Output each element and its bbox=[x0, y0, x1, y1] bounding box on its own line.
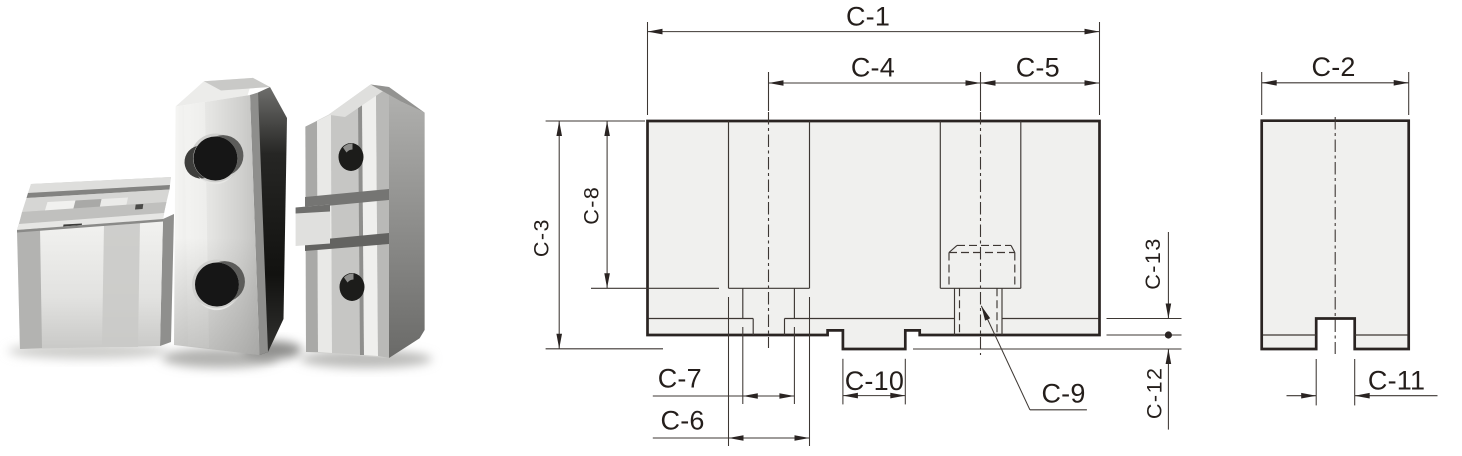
leader C-9 slanted line bbox=[981, 306, 1030, 410]
arrow C-7 left bbox=[743, 393, 758, 399]
photo: floor shadow under block C bbox=[300, 350, 432, 368]
dim C-10 line bbox=[843, 395, 905, 397]
front view: bolt hole left wall bbox=[954, 288, 956, 335]
svg-text:C-11: C-11 bbox=[1368, 365, 1425, 395]
photo: block B upper counterbore hole bbox=[185, 134, 244, 185]
arrow C-12 up bbox=[1166, 349, 1172, 364]
photo: block A shadow line under top edge bbox=[17, 219, 163, 233]
dim C-2 extension right bbox=[1408, 72, 1410, 115]
centerline: bolt axis dash-dot bbox=[980, 112, 982, 355]
svg-text:C-5: C-5 bbox=[1016, 52, 1060, 82]
arrow C-2 left bbox=[1262, 80, 1277, 86]
dim C-2 line bbox=[1262, 82, 1409, 84]
arrow C-3 bottom bbox=[556, 334, 562, 349]
photo: block A top face base bbox=[17, 177, 171, 230]
dim C-11 extension right bbox=[1354, 359, 1356, 405]
dim C-2 extension left bbox=[1261, 72, 1263, 115]
photo: block A front slope of top face bbox=[19, 202, 167, 224]
photo: block C upper hole bbox=[339, 143, 364, 171]
dim C-8 line bbox=[606, 121, 608, 288]
photo: block B front face sheen bbox=[184, 102, 209, 348]
photo: block A dark slot on face bbox=[62, 224, 82, 235]
arrow C-4 left bbox=[769, 80, 784, 86]
arrow C-13 down bbox=[1166, 304, 1172, 319]
front view: part outline with bottom tongue bbox=[648, 121, 1100, 349]
photo: block C top chamfer right facet bbox=[371, 85, 425, 113]
photo: block A ridge tab left bright bbox=[44, 201, 76, 214]
dim C-1 line bbox=[648, 31, 1100, 33]
photo: block A front face left chamfer strip bbox=[17, 228, 42, 349]
front view: counterbore right wall bbox=[1020, 121, 1022, 288]
photo: block B dark right side face bbox=[258, 87, 287, 355]
leader C-9 horizontal line bbox=[1030, 409, 1087, 411]
photo: block B top chamfer facet bbox=[176, 78, 253, 107]
arrow C-10 right bbox=[890, 393, 905, 399]
photo: block C lower hole bbox=[340, 273, 365, 301]
front view: through slot left wall bbox=[752, 319, 754, 336]
arrow C-9 leader bbox=[981, 306, 990, 321]
arrow C-1 left bbox=[648, 29, 663, 35]
svg-text:C-10: C-10 bbox=[845, 366, 904, 396]
front view: counterbore bottom ledge bbox=[940, 287, 1021, 289]
photo: block C channel right edge shade bbox=[358, 98, 364, 355]
dim C-6 extension right bbox=[809, 297, 811, 446]
photo: block C left rail side strip bbox=[305, 121, 318, 352]
dim C-8 extension bottom bbox=[591, 287, 719, 289]
dim C-13 line bbox=[1167, 232, 1169, 319]
photo: block B front face lower shading bbox=[174, 95, 260, 355]
front view: serration ledge line middle segment bbox=[785, 318, 955, 320]
svg-text:C-9: C-9 bbox=[1041, 378, 1085, 408]
photo: block A front face mid gray band bbox=[102, 221, 140, 347]
dim C-13 extension lower bbox=[1107, 334, 1182, 336]
front view: nut cap right chamfer bbox=[1011, 245, 1015, 252]
svg-text:C-7: C-7 bbox=[658, 364, 702, 394]
arrow C-10 left bbox=[843, 393, 858, 399]
dim C-11 line left stub bbox=[1287, 395, 1317, 397]
photo: block C mid tongue tab bbox=[296, 205, 330, 247]
arrow C-8 bottom bbox=[604, 273, 610, 288]
photo: block C tab top shade bbox=[296, 205, 330, 214]
dim C-3 extension bottom bbox=[546, 348, 663, 350]
centerline: left slot axis dash-dot bbox=[768, 112, 770, 348]
dim C-10 extension right bbox=[904, 359, 906, 405]
svg-text:C-6: C-6 bbox=[661, 405, 705, 435]
arrow C-8 top bbox=[604, 121, 610, 136]
photo: block C serration groove upper bbox=[305, 189, 389, 208]
dim C-4 / C-5 line bbox=[769, 82, 1100, 84]
dim C-12 line bbox=[1167, 349, 1169, 430]
photo: block A front face bbox=[17, 219, 163, 349]
photo: block C serration groove lower bbox=[305, 233, 389, 251]
front view: left T-slot bottom bbox=[729, 287, 810, 289]
photo: block A top back rail bbox=[28, 177, 171, 193]
photo: block B top strip facet bbox=[204, 78, 270, 91]
photo: block A top back groove bbox=[27, 185, 171, 198]
svg-text:C-13: C-13 bbox=[1141, 237, 1165, 290]
arrow C-4 right bbox=[966, 80, 981, 86]
dim C-1 extension right bbox=[1099, 22, 1101, 115]
front view: serration ledge line right segment bbox=[1002, 318, 1099, 320]
photo: dark shadow at right foot of block B bbox=[242, 341, 302, 359]
arrow C-5 right bbox=[1085, 80, 1100, 86]
photo: block A front rail lip bbox=[17, 213, 164, 230]
arrow C-11 right (outside) bbox=[1355, 393, 1370, 399]
photo: block C bright rail strip bbox=[317, 114, 332, 353]
side view: part outline with bottom groove bbox=[1262, 121, 1409, 349]
front view: left T-slot left wall bbox=[728, 121, 730, 288]
arrow C-5 left bbox=[981, 80, 996, 86]
front view: serration ledge line left segment bbox=[649, 318, 754, 320]
arrow C-2 right bbox=[1394, 80, 1409, 86]
side view: serration ledge line right bbox=[1355, 334, 1408, 336]
photo: block C top chamfer left facet bbox=[329, 85, 390, 118]
dim C-7 extension left bbox=[742, 327, 744, 404]
front view: left groove right wall bbox=[793, 288, 795, 318]
photo: block B corner chamfer strip bbox=[250, 93, 268, 356]
front view: nut left side (hidden) bbox=[948, 253, 950, 288]
photo: block A raised ridge band bbox=[22, 190, 170, 213]
arrow C-1 right bbox=[1085, 29, 1100, 35]
photo: floor shadow under block B bbox=[162, 348, 278, 368]
svg-text:C-8: C-8 bbox=[580, 186, 604, 225]
dim C-13 extension upper bbox=[1107, 318, 1182, 320]
arrow C-11 left (outside) bbox=[1301, 393, 1316, 399]
photo: floor shadow under block A bbox=[8, 343, 168, 359]
front view: counterbore left wall bbox=[939, 121, 941, 288]
side view: serration ledge line left bbox=[1263, 334, 1316, 336]
photo: block C right side face bbox=[389, 87, 425, 358]
svg-text:C-3: C-3 bbox=[530, 218, 554, 257]
photo: block B lower counterbore hole bbox=[192, 260, 245, 311]
arrow C-3 top bbox=[556, 121, 562, 136]
photo: block C recess channel strip bbox=[331, 98, 364, 355]
dim C-12 extension line (tongue bottom) bbox=[913, 348, 1182, 350]
side view: centerline dash-dot bbox=[1334, 117, 1336, 354]
front view: nut cap top edge (hidden) bbox=[957, 244, 1011, 246]
photo: block C mid strip bbox=[376, 87, 389, 358]
front view: left T-slot right wall bbox=[809, 121, 811, 288]
photo: block A small dark notch right bbox=[135, 204, 143, 210]
dim C-7 extension right bbox=[793, 327, 795, 404]
dim C-6 line bbox=[653, 437, 810, 439]
dim C-11 line right stub bbox=[1355, 395, 1438, 397]
dim C-6 extension left bbox=[728, 297, 730, 446]
centerline: left slot axis solid extension bbox=[768, 72, 770, 111]
dim C-10 extension left bbox=[842, 359, 844, 405]
front view: bolt shank right (hidden) bbox=[996, 288, 998, 334]
dim C-7 line bbox=[653, 395, 795, 397]
front view: left groove left wall bbox=[742, 288, 744, 318]
photo: block A ridge tab right bright bbox=[99, 198, 128, 211]
front view: nut right side (hidden) bbox=[1014, 253, 1016, 288]
svg-text:C-2: C-2 bbox=[1312, 52, 1356, 82]
front view: nut shoulder line (hidden) bbox=[949, 252, 1015, 254]
photo: block A right end face bbox=[160, 214, 174, 346]
dim C-1 extension left bbox=[647, 22, 649, 115]
front view: bolt hole right wall bbox=[1001, 288, 1003, 335]
front view: nut cap left chamfer bbox=[949, 245, 957, 252]
photo: block C silhouette base bbox=[305, 85, 424, 359]
arrow C-7 right bbox=[779, 393, 794, 399]
photo: block A center gap between tabs bbox=[73, 199, 102, 212]
dim C-11 extension left bbox=[1315, 359, 1317, 405]
dim C-3 extension top bbox=[546, 120, 645, 122]
dim C-3 line bbox=[558, 121, 560, 349]
arrow C-6 left bbox=[729, 435, 744, 441]
svg-text:C-4: C-4 bbox=[851, 52, 895, 82]
front view: through slot right wall bbox=[784, 319, 786, 336]
front view: bolt shank left (hidden) bbox=[959, 288, 961, 334]
photo: block C bright rail 2 bbox=[362, 92, 378, 356]
centerline: bolt axis solid extension bbox=[980, 72, 982, 111]
svg-text:C-12: C-12 bbox=[1143, 366, 1167, 419]
photo: block B front face bbox=[174, 95, 260, 355]
dot C-13/C-12 reference bbox=[1165, 331, 1172, 338]
arrow C-6 right bbox=[795, 435, 810, 441]
svg-text:C-1: C-1 bbox=[846, 2, 890, 32]
